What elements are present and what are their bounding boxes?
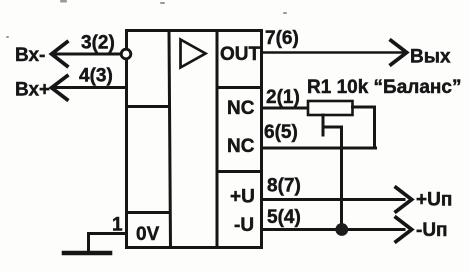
svg-text:-Uп: -Uп xyxy=(416,220,448,241)
U1 NC/+U divider xyxy=(217,170,262,173)
U1 left column divider xyxy=(169,31,171,248)
arrow head Вых xyxy=(391,41,407,65)
svg-text:+U: +U xyxy=(230,187,255,208)
wire pin 3(2) input xyxy=(54,53,120,56)
wire pin 4(3) input xyxy=(54,86,127,89)
wire pin 7(6) output xyxy=(262,51,405,54)
svg-text:1: 1 xyxy=(112,215,123,236)
svg-text:6(5): 6(5) xyxy=(264,122,298,143)
svg-text:Вх+: Вх+ xyxy=(15,80,50,101)
wire pin 2(1) to R1 xyxy=(262,107,309,110)
svg-text:NC: NC xyxy=(227,136,255,157)
wire R1 wiper stub xyxy=(322,115,325,135)
svg-text:NC: NC xyxy=(227,98,255,119)
arrow head Вх+ xyxy=(52,76,68,100)
svg-text:7(6): 7(6) xyxy=(265,28,299,49)
svg-text:OUT: OUT xyxy=(220,44,261,65)
0V cell top edge xyxy=(127,211,170,214)
wire pin 6(5) xyxy=(262,147,376,150)
U1 right column divider xyxy=(216,31,219,248)
op-amp triangle symbol xyxy=(181,40,206,68)
svg-text:2(1): 2(1) xyxy=(266,87,300,108)
arrow head Вх- xyxy=(52,42,68,66)
U1 OUT/NC divider xyxy=(217,86,262,89)
svg-text:Вых: Вых xyxy=(410,47,451,68)
op-amp U1 body outline xyxy=(127,31,262,248)
svg-text:8(7): 8(7) xyxy=(267,176,301,197)
svg-text:Вх-: Вх- xyxy=(15,45,45,66)
svg-text:4(3): 4(3) xyxy=(79,66,113,87)
wire pin 5(4) -U rail xyxy=(262,228,405,231)
wire wiper to -U rail xyxy=(340,127,343,230)
wire wiper connector xyxy=(323,126,342,129)
junction dot on -U rail xyxy=(335,223,348,236)
U1 input cell divider xyxy=(127,105,170,108)
svg-text:R1 10k “Баланс”: R1 10k “Баланс” xyxy=(307,77,461,98)
ground symbol xyxy=(64,251,110,256)
resistor R1 body xyxy=(308,101,353,115)
arrow head +Uп xyxy=(396,188,412,212)
svg-text:5(4): 5(4) xyxy=(267,207,301,228)
svg-text:-U: -U xyxy=(234,215,254,236)
wire pin 1 to ground xyxy=(89,234,127,253)
wire pin 8(7) +U rail xyxy=(262,198,405,201)
node: input terminal circle xyxy=(121,49,131,59)
wire R1 right end xyxy=(353,107,375,148)
arrow head -Uп xyxy=(396,218,412,242)
svg-text:+Uп: +Uп xyxy=(416,190,452,211)
svg-text:0V: 0V xyxy=(136,224,160,245)
svg-text:3(2): 3(2) xyxy=(81,33,115,54)
